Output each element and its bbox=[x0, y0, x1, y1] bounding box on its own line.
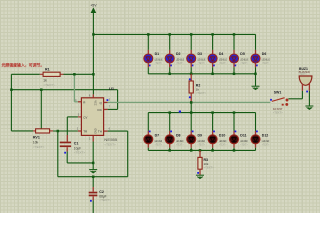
svg-text:<TEXT>: <TEXT> bbox=[240, 61, 248, 65]
wire CV to C1 bbox=[67, 117, 81, 142]
svg-text:<TEXT>: <TEXT> bbox=[219, 143, 227, 147]
junction RV1 wiper on node7 bbox=[40, 88, 43, 91]
svg-text:TH: TH bbox=[98, 130, 102, 134]
wire anode drop D9 bbox=[190, 113, 192, 135]
wire cathode D9 bbox=[190, 144, 192, 150]
wire anode drop D5 bbox=[233, 34, 235, 53]
svg-text:10k: 10k bbox=[33, 140, 39, 144]
junction cathode rail D4 bbox=[211, 73, 214, 76]
pin U1.4 R stub bbox=[78, 101, 82, 103]
svg-text:LED-RED: LED-RED bbox=[262, 139, 270, 143]
chip internal labels bbox=[83, 100, 103, 134]
svg-text:LED-BLUE: LED-BLUE bbox=[155, 57, 163, 61]
wire cathode D5 bbox=[233, 63, 235, 73]
svg-text:SW1: SW1 bbox=[274, 91, 282, 95]
wire cathode D4 bbox=[212, 63, 214, 73]
svg-text:<TEXT>: <TEXT> bbox=[273, 111, 283, 115]
svg-text:8: 8 bbox=[89, 94, 91, 98]
wire cathode D11 bbox=[233, 144, 235, 150]
svg-text:光照强度输入，可调节。: 光照强度输入，可调节。 bbox=[1, 63, 45, 68]
svg-text:D6: D6 bbox=[262, 52, 267, 56]
ground under R3 bbox=[196, 175, 204, 178]
LED D9 bbox=[187, 135, 196, 144]
marker C1 blue bbox=[64, 152, 66, 154]
wire cathode D2 bbox=[169, 63, 171, 73]
junction C2 top bbox=[92, 175, 95, 178]
LED D2 bbox=[165, 54, 174, 63]
wire node7 down to pin DC bbox=[108, 90, 118, 110]
marker BUZ1 blue bbox=[306, 91, 308, 93]
marker D6 blue bbox=[256, 65, 258, 67]
wire cathode D10 bbox=[212, 144, 214, 150]
svg-text:1: 1 bbox=[89, 137, 91, 141]
svg-text:<TEXT>: <TEXT> bbox=[198, 143, 206, 147]
svg-text:<TEXT>: <TEXT> bbox=[262, 61, 270, 65]
svg-text:<TEXT>: <TEXT> bbox=[43, 83, 55, 87]
wire cathode D6 bbox=[255, 63, 257, 73]
junction row2 rail D8 bbox=[168, 111, 171, 114]
svg-text:7: 7 bbox=[109, 105, 111, 109]
junction TR net branch bbox=[57, 130, 60, 133]
svg-text:LED-BLUE: LED-BLUE bbox=[262, 57, 270, 61]
resistor R1 bbox=[40, 72, 64, 76]
junction row2 cathode rail D11 bbox=[233, 149, 236, 152]
marker D2 blue bbox=[170, 65, 172, 67]
LED D4 bbox=[208, 54, 217, 63]
ground under U1 bbox=[89, 170, 97, 173]
potentiometer RV1 bbox=[33, 129, 53, 133]
wire anode drop D12 bbox=[255, 113, 257, 135]
wire R1 left down to RV1 bbox=[11, 74, 39, 131]
junction row2 rail D9 bbox=[190, 111, 193, 114]
junction cathode rail D2 bbox=[168, 73, 171, 76]
pin U1.7 DC stub bbox=[104, 108, 108, 110]
svg-text:U1: U1 bbox=[109, 86, 115, 91]
svg-text:1k: 1k bbox=[43, 78, 47, 82]
wire RV1 right to pin TR bbox=[53, 130, 78, 132]
marker D10 blue bbox=[213, 131, 215, 133]
wire C1 bottom to ground net bbox=[67, 151, 93, 163]
junction top rail D4 bbox=[211, 33, 214, 36]
svg-text:R1: R1 bbox=[45, 68, 50, 72]
svg-text:D3: D3 bbox=[198, 52, 203, 56]
LED D3 bbox=[187, 54, 196, 63]
ground under D6 bbox=[252, 86, 260, 89]
marker D5 blue bbox=[234, 65, 236, 67]
svg-text:D12: D12 bbox=[262, 133, 268, 137]
junction R3 top bbox=[199, 149, 202, 152]
svg-text:2: 2 bbox=[77, 127, 79, 131]
junction row2 cathode rail D8 bbox=[168, 149, 171, 152]
wire anode drop D3 bbox=[190, 34, 192, 53]
svg-text:D4: D4 bbox=[219, 52, 224, 56]
marker C2 blue bbox=[90, 200, 92, 202]
svg-text:CV: CV bbox=[83, 115, 87, 119]
wire anode drop D2 bbox=[169, 34, 171, 53]
svg-text:3: 3 bbox=[109, 98, 111, 102]
svg-text:D11: D11 bbox=[240, 133, 246, 137]
marker D7 blue bbox=[149, 131, 151, 133]
marker rail blue bbox=[179, 111, 181, 113]
pin U1.8 VCC stub bbox=[92, 94, 94, 97]
wire anode drop D1 bbox=[147, 34, 149, 53]
svg-text:LED-RED: LED-RED bbox=[198, 139, 206, 143]
svg-text:LED-RED: LED-RED bbox=[155, 139, 163, 143]
wire SW1 to buzzer bbox=[288, 91, 302, 99]
svg-text:C1: C1 bbox=[74, 141, 79, 145]
svg-text:LED-RED: LED-RED bbox=[240, 139, 248, 143]
junction row2 rail D11 bbox=[233, 111, 236, 114]
svg-text:<TEXT>: <TEXT> bbox=[262, 143, 270, 147]
svg-text:<TEXT>: <TEXT> bbox=[155, 143, 163, 147]
svg-text:<TEXT>: <TEXT> bbox=[155, 61, 163, 65]
junction +5V / R1 wire bbox=[92, 73, 95, 76]
wire +5V vertical to U1 VCC bbox=[92, 13, 94, 94]
junction top rail D5 bbox=[233, 33, 236, 36]
svg-text:NE555: NE555 bbox=[104, 138, 117, 142]
marker D12 blue bbox=[256, 131, 258, 133]
LED D6 bbox=[251, 54, 260, 63]
marker D4 blue bbox=[213, 65, 215, 67]
wire node7 horizontal to DC bbox=[11, 89, 117, 91]
wire cathode D12 bbox=[255, 144, 257, 150]
junction +5V / top rail bbox=[92, 33, 95, 36]
junction row2 rail D10 bbox=[211, 111, 214, 114]
junction cathode rail D5 bbox=[233, 73, 236, 76]
svg-text:<TEXT>: <TEXT> bbox=[198, 61, 206, 65]
svg-text:LED-BLUE: LED-BLUE bbox=[198, 57, 206, 61]
wire anode drop D6 bbox=[255, 34, 257, 53]
marker SW1 blue bbox=[270, 99, 272, 101]
svg-text:D9: D9 bbox=[198, 133, 203, 137]
svg-text:<TEXT>: <TEXT> bbox=[74, 150, 86, 154]
LED D12 bbox=[251, 135, 260, 144]
wire TH vertical up to pin TH bbox=[108, 131, 128, 177]
svg-text:6: 6 bbox=[109, 127, 111, 131]
pin U1.3 Q stub bbox=[104, 101, 108, 103]
power +5V symbol bbox=[90, 4, 97, 13]
resistor R3 bbox=[198, 150, 202, 175]
marker pin3 blue bbox=[107, 99, 109, 101]
wire row2 cathode rail bbox=[148, 149, 255, 151]
junction top rail D3 bbox=[190, 33, 193, 36]
wire top rail to LED anodes bbox=[93, 33, 255, 35]
junction row2 cathode rail D10 bbox=[211, 149, 214, 152]
wire anode drop D10 bbox=[212, 113, 214, 135]
wire R1 right to +5V line bbox=[63, 73, 93, 75]
svg-text:+5V: +5V bbox=[90, 4, 97, 8]
junction top rail D2 bbox=[168, 33, 171, 36]
buzzer BUZ1 bbox=[299, 76, 312, 91]
junction top rail D1 bbox=[147, 33, 150, 36]
LED D10 bbox=[208, 135, 217, 144]
junction R2 top bbox=[190, 73, 193, 76]
marker D11 blue bbox=[235, 131, 237, 133]
LED D8 bbox=[165, 135, 174, 144]
marker D9 blue bbox=[192, 131, 194, 133]
svg-text:VCC: VCC bbox=[94, 100, 97, 105]
svg-text:<TEXT>: <TEXT> bbox=[240, 143, 248, 147]
marker R2 top blue bbox=[189, 78, 191, 80]
svg-text:LED-BLUE: LED-BLUE bbox=[176, 57, 184, 61]
switch SW1 bbox=[272, 98, 289, 106]
svg-text:D5: D5 bbox=[240, 52, 245, 56]
wire cathode D1 bbox=[147, 63, 149, 73]
wire cathode D3 bbox=[190, 63, 192, 73]
junction cathode rail D3 bbox=[190, 73, 193, 76]
junction row2 cathode rail D9 bbox=[190, 149, 193, 152]
wire U1 GND down bbox=[92, 135, 94, 169]
svg-text:LED-RED: LED-RED bbox=[219, 139, 227, 143]
svg-text:D10: D10 bbox=[219, 133, 225, 137]
svg-text:GND: GND bbox=[94, 128, 97, 134]
resistor R2 bbox=[189, 74, 193, 103]
wire D6 to ground bbox=[255, 74, 257, 86]
svg-text:D1: D1 bbox=[155, 52, 160, 56]
svg-text:<TEXT>: <TEXT> bbox=[99, 198, 111, 202]
op-amp U1 NE555 body bbox=[81, 98, 103, 136]
wire buzzer to ground bbox=[308, 91, 310, 106]
svg-text:LED-RED: LED-RED bbox=[176, 139, 184, 143]
svg-text:<TEXT>: <TEXT> bbox=[104, 142, 116, 146]
junction D6 rail bbox=[254, 73, 257, 76]
svg-text:D8: D8 bbox=[176, 133, 181, 137]
marker D8 blue bbox=[170, 131, 172, 133]
svg-text:D2: D2 bbox=[176, 52, 181, 56]
wire TR net down and along bottom bbox=[58, 131, 128, 177]
ground under BUZ1 bbox=[305, 106, 313, 109]
svg-text:D7: D7 bbox=[155, 133, 160, 137]
junction reset wire top bbox=[73, 73, 76, 76]
pin U1.2 TR stub bbox=[78, 130, 82, 132]
wire row2 anode rail bbox=[148, 112, 255, 114]
LED D7 bbox=[144, 135, 153, 144]
svg-text:<TEXT>: <TEXT> bbox=[299, 73, 308, 76]
svg-text:LED-BLUE: LED-BLUE bbox=[240, 57, 248, 61]
wire cathode rail bbox=[148, 73, 255, 75]
svg-text:LED-BLUE: LED-BLUE bbox=[219, 57, 227, 61]
LED D5 bbox=[230, 54, 239, 63]
marker R2 bottom blue bbox=[189, 96, 191, 98]
junction R2 / row2 feed bbox=[190, 101, 193, 104]
svg-text:<TEXT>: <TEXT> bbox=[176, 143, 184, 147]
svg-text:<TEXT>: <TEXT> bbox=[204, 165, 215, 169]
wire reset light green bbox=[74, 74, 78, 102]
wire C2 bottom off sheet bbox=[92, 200, 94, 213]
svg-text:<TEXT>: <TEXT> bbox=[219, 61, 227, 65]
wire anode drop D4 bbox=[212, 34, 214, 53]
wire anode drop D7 bbox=[147, 113, 149, 135]
marker D1 blue bbox=[149, 65, 151, 67]
junction R1 branch to pin7 net bbox=[10, 88, 13, 91]
capacitor C1 bbox=[60, 142, 71, 152]
svg-text:<TEXT>: <TEXT> bbox=[196, 91, 207, 95]
marker D3 blue bbox=[192, 65, 194, 67]
wire cathode D8 bbox=[169, 144, 171, 150]
wire anode drop D11 bbox=[233, 113, 235, 135]
wire feed to row2 rail bbox=[190, 102, 192, 112]
pin U1.6 TH stub bbox=[104, 130, 108, 132]
wire cathode D7 bbox=[147, 144, 149, 150]
wire RV1 wiper vertical bbox=[40, 90, 42, 129]
svg-text:RV1: RV1 bbox=[33, 135, 40, 139]
junction C1 / GND pin bbox=[92, 162, 95, 165]
LED D1 bbox=[144, 54, 153, 63]
svg-text:C2: C2 bbox=[99, 190, 104, 194]
svg-text:5: 5 bbox=[78, 113, 80, 117]
capacitor C2 bbox=[89, 177, 98, 201]
svg-text:<TEXT>: <TEXT> bbox=[176, 61, 184, 65]
LED D11 bbox=[230, 135, 239, 144]
wire anode drop D8 bbox=[169, 113, 171, 135]
svg-text:<TEXT>: <TEXT> bbox=[33, 145, 45, 149]
marker R3 blue bbox=[197, 172, 199, 174]
wire Q output light green bbox=[108, 101, 271, 103]
